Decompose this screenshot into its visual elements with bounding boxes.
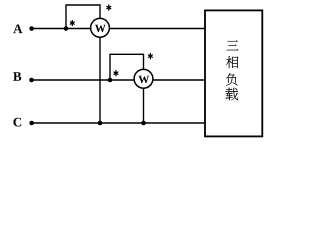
load label 负 (226, 73, 238, 85)
terminal dot phase A (29, 26, 34, 31)
phase label C (13, 118, 21, 127)
terminal dot phase B (29, 78, 34, 83)
polarity mark * at W2 current coil (114, 71, 118, 76)
polarity mark * at W1 current coil (70, 20, 74, 25)
junction node on line C below W1 (98, 121, 103, 126)
junction node on line C below W2 (141, 121, 146, 126)
load label 三 (227, 40, 239, 50)
wattmeter W1 (current coil in line A) (91, 18, 110, 37)
terminal dot phase C (29, 121, 34, 126)
wattmeter W2 (current coil in line B) (134, 69, 153, 88)
junction node on line B (W2 voltage tap) (108, 78, 113, 83)
polarity mark * at W1 voltage coil (107, 5, 111, 10)
junction node on line A (W1 voltage tap) (64, 26, 69, 31)
load box (three-phase load) (205, 10, 262, 136)
wire line C (phase C to load) (32, 122, 205, 124)
wire W2 voltage coil loop from node on line B (110, 54, 144, 80)
load label 相 (226, 56, 238, 68)
load label 载 (225, 88, 238, 101)
wire W2 voltage coil return to line C (143, 88, 145, 123)
polarity mark * at W2 voltage coil (148, 54, 152, 59)
phase label A (13, 25, 22, 34)
wire W1 voltage coil loop from node on line A (66, 5, 100, 29)
phase label B (13, 72, 21, 81)
wire line A (phase A to load) (32, 28, 205, 30)
wire line B (phase B to load) (32, 79, 206, 81)
wire W1 voltage coil return to line C (99, 37, 101, 123)
